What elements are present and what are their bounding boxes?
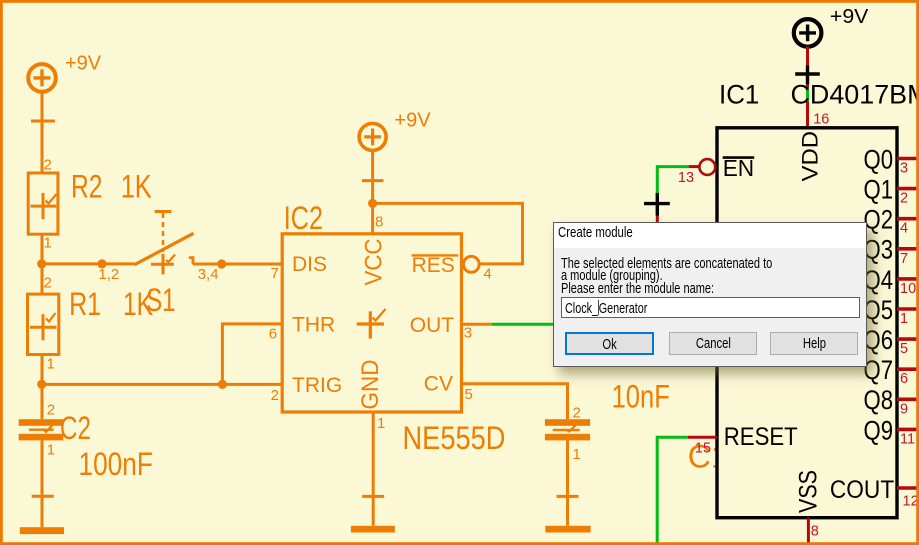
junction node B: [37, 380, 46, 389]
pin number 8 of IC1: [811, 524, 819, 540]
svg-text:2: 2: [900, 191, 908, 207]
switch S1 handle cross with check: [151, 254, 175, 275]
svg-text:+9V: +9V: [65, 52, 102, 74]
svg-text:RES: RES: [412, 254, 455, 277]
capacitor C1 (10nF): [545, 419, 590, 440]
svg-text:1: 1: [900, 311, 908, 327]
svg-text:+9V: +9V: [830, 6, 869, 28]
svg-text:8: 8: [375, 214, 383, 231]
svg-text:Q3: Q3: [864, 235, 894, 265]
EN net wire (green): [657, 167, 688, 193]
wire THR loop: [222, 324, 282, 385]
svg-text:10nF: 10nF: [612, 379, 670, 415]
pin number 6: [269, 326, 277, 343]
junction VCC net: [368, 199, 377, 208]
switch S1 actuator (dashed with T-bar): [155, 212, 172, 253]
pin cross tick on VCC wire: [362, 179, 384, 182]
pin number 1 of C2: [47, 442, 55, 459]
pin cross tick above ground: [32, 495, 54, 498]
label NE555D: [403, 420, 506, 456]
wire OUT net (green): [492, 323, 554, 326]
svg-text:15: 15: [695, 440, 711, 456]
svg-text:5: 5: [900, 341, 908, 357]
pin name EN with overline: [723, 155, 755, 181]
C1 handle cross with check: [553, 424, 580, 432]
svg-text:1: 1: [573, 446, 581, 463]
pin name COUT: [830, 476, 894, 504]
wire VCC to RES loop: [373, 203, 523, 264]
svg-text:1K: 1K: [121, 169, 152, 205]
svg-text:VDD: VDD: [798, 131, 823, 182]
EN inversion bubble pin 13: [699, 159, 715, 175]
power symbol +9V (left, selected orange): [28, 64, 56, 92]
value 10nF: [612, 379, 670, 415]
resistor R1: [28, 294, 59, 354]
wire CV to C1: [462, 384, 568, 420]
svg-text:3,4: 3,4: [198, 266, 219, 283]
C2 handle cross with check: [29, 424, 54, 433]
pin Q0: [864, 144, 918, 176]
pin Q9: [864, 415, 918, 447]
svg-text:7: 7: [271, 265, 279, 282]
svg-text:Q9: Q9: [864, 415, 894, 445]
pin number 4: [483, 266, 491, 283]
pin Q7: [864, 355, 918, 387]
svg-text:3: 3: [900, 161, 908, 177]
pin name DIS: [292, 253, 327, 276]
power symbol +9V (right, black): [794, 19, 822, 47]
svg-text:R2: R2: [71, 169, 103, 205]
svg-text:NE555D: NE555D: [403, 420, 506, 456]
svg-text:8: 8: [811, 524, 819, 540]
label C2: [60, 410, 91, 446]
svg-text:2: 2: [271, 387, 279, 404]
svg-text:3: 3: [464, 325, 472, 342]
junction node A: [37, 259, 46, 268]
svg-text:IC2: IC2: [284, 200, 323, 236]
pin number 15: [695, 440, 711, 456]
svg-text:CD4017BM: CD4017BM: [791, 80, 919, 110]
svg-text:COUT: COUT: [830, 476, 894, 504]
pin Q4: [864, 265, 918, 297]
pin name CV: [424, 373, 453, 396]
svg-text:1,2: 1,2: [98, 266, 119, 283]
value 100nF: [79, 446, 153, 482]
label R1: [69, 286, 101, 322]
pin number 2 of C1: [573, 404, 581, 421]
pin number 1 of R2: [44, 235, 52, 252]
pin number 3: [464, 325, 472, 342]
svg-text:2: 2: [573, 404, 581, 421]
pin Q1: [864, 175, 918, 207]
wire GND pin to ground: [372, 412, 375, 526]
svg-text:Q2: Q2: [864, 205, 894, 235]
power symbol +9V (middle, selected orange): [359, 123, 386, 150]
pin Q3: [864, 235, 918, 267]
label 1,2: [98, 266, 119, 283]
value 1K of R2: [121, 169, 152, 205]
svg-text:C2: C2: [60, 410, 91, 446]
wire R1 pin1 to C2: [41, 355, 44, 420]
dialog Create module: [553, 222, 867, 368]
EN pin stub (red): [689, 165, 699, 168]
pin number 2 of R1: [44, 275, 52, 292]
svg-text:TRIG: TRIG: [292, 374, 342, 397]
label C1 (partially hidden by IC1): [688, 439, 729, 475]
pin name OUT: [410, 314, 455, 337]
svg-text:Q7: Q7: [864, 355, 894, 385]
pin cross tick under C1: [557, 495, 579, 498]
pin name VSS (rotated): [795, 470, 823, 513]
pin Q8: [864, 385, 918, 417]
pin Q6: [864, 325, 918, 357]
ground symbol (under C2): [20, 527, 64, 534]
svg-text:Q4: Q4: [864, 265, 894, 295]
switch S1 lever: [134, 233, 193, 264]
svg-text:4: 4: [900, 221, 908, 237]
capacitor C2: [19, 419, 64, 440]
pin cross tick on +9V wire: [31, 120, 55, 123]
svg-text:13: 13: [678, 170, 694, 186]
pin number 1 of IC2: [377, 415, 385, 432]
svg-text:Q5: Q5: [864, 295, 894, 325]
svg-text:Q8: Q8: [864, 385, 894, 415]
svg-text:+9V: +9V: [394, 109, 431, 131]
pin number 5: [465, 386, 473, 403]
pin Q5: [864, 295, 918, 327]
svg-text:10: 10: [900, 281, 916, 297]
pin name RES with overline: [412, 254, 459, 277]
svg-text:RESET: RESET: [724, 423, 798, 451]
label S1: [146, 282, 176, 318]
pin Q2: [864, 205, 918, 237]
svg-text:1: 1: [377, 415, 385, 432]
wire R2 pin1 to R1 pin2: [41, 234, 44, 294]
label IC2: [284, 200, 323, 236]
svg-text:Q1: Q1: [864, 175, 894, 205]
wire switch to DIS pin 7: [193, 263, 283, 266]
RESET pin stub (red): [688, 436, 717, 439]
wire +9V to R2 pin2: [41, 92, 44, 173]
value 1K of R1: [123, 286, 153, 322]
svg-text:Q0: Q0: [864, 144, 894, 174]
label +9V (left): [65, 52, 102, 74]
pin name TRIG: [292, 374, 342, 397]
RESET net wire (green): [657, 437, 688, 543]
switch S1 contact 3,4 hook: [189, 258, 193, 265]
wire VDD net (red/green segments): [806, 85, 809, 129]
label CD4017BM: [791, 80, 919, 110]
label IC1: [719, 80, 759, 110]
svg-text:11: 11: [900, 431, 915, 447]
svg-text:DIS: DIS: [292, 253, 327, 276]
wire C1 to ground: [566, 440, 569, 525]
ground symbol (under IC2): [351, 526, 395, 533]
pin number 1 of R1: [47, 356, 55, 373]
wire red segment to dialog: [656, 216, 659, 223]
pin name VDD (rotated): [798, 131, 823, 182]
svg-text:OUT: OUT: [410, 314, 455, 337]
svg-text:VCC: VCC: [361, 239, 388, 286]
svg-text:6: 6: [269, 326, 277, 343]
pin name GND (rotated): [357, 360, 384, 410]
wire +9V to VCC pin 8: [371, 150, 374, 233]
VSS pin stub (red): [807, 518, 810, 544]
svg-text:IC1: IC1: [719, 80, 759, 110]
pin name VCC (rotated): [361, 239, 388, 286]
IC1 box (CD4017BM): [717, 128, 897, 518]
label +9V (middle): [394, 109, 431, 131]
svg-text:4: 4: [483, 266, 491, 283]
svg-text:16: 16: [813, 111, 829, 127]
junction on TRIG wire: [218, 380, 227, 389]
wire +9V to VDD (red segment): [806, 47, 809, 66]
pin name RESET: [724, 423, 798, 451]
svg-text:1: 1: [47, 442, 55, 459]
ground symbol (under C1): [545, 526, 590, 533]
pin number 13: [678, 170, 694, 186]
pin number 2 of R2: [44, 157, 52, 174]
wire TRIG net: [42, 383, 283, 386]
wire C2 to ground: [41, 440, 44, 527]
op IC2 box (NE555D): [282, 234, 461, 412]
wire handle cross (black) below EN net: [644, 193, 670, 216]
pin number 16: [813, 111, 829, 127]
label +9V (right): [830, 6, 869, 28]
svg-text:1: 1: [47, 356, 55, 373]
svg-text:R1: R1: [69, 286, 101, 322]
wire node A to switch contact 1,2: [42, 262, 135, 265]
pin number 7: [271, 265, 279, 282]
svg-text:VSS: VSS: [795, 470, 823, 513]
pin number 8: [375, 214, 383, 231]
OUT pin stub (orange): [462, 323, 492, 326]
COUT pin stub (red): [897, 486, 917, 490]
svg-text:6: 6: [900, 371, 908, 387]
svg-text:1: 1: [44, 235, 52, 252]
svg-text:2: 2: [47, 401, 55, 418]
pin number 12: [903, 494, 919, 510]
svg-text:5: 5: [465, 386, 473, 403]
svg-text:7: 7: [900, 251, 908, 267]
label 3,4: [198, 266, 219, 283]
RES inversion bubble pin 4: [463, 256, 479, 272]
pin number 2 of C2: [47, 401, 55, 418]
pin cross tick under IC2: [362, 495, 384, 498]
pin cross (black) on VDD wire: [795, 66, 820, 85]
svg-text:9: 9: [900, 401, 908, 417]
svg-text:Q6: Q6: [864, 325, 894, 355]
junction on DIS wire: [217, 259, 226, 268]
pin name THR: [292, 314, 335, 337]
svg-text:2: 2: [44, 275, 52, 292]
svg-text:2: 2: [44, 157, 52, 174]
pin number 2 of IC2: [271, 387, 279, 404]
IC2 handle cross with check: [357, 309, 386, 339]
junction at switch contact 1,2: [97, 259, 106, 268]
pin number 1 of C1: [573, 446, 581, 463]
resistor R2: [28, 173, 58, 234]
svg-text:CV: CV: [424, 373, 453, 396]
svg-text:100nF: 100nF: [79, 446, 153, 482]
svg-text:THR: THR: [292, 314, 335, 337]
label R2: [71, 169, 103, 205]
svg-text:1K: 1K: [123, 286, 153, 322]
svg-text:GND: GND: [357, 360, 384, 410]
